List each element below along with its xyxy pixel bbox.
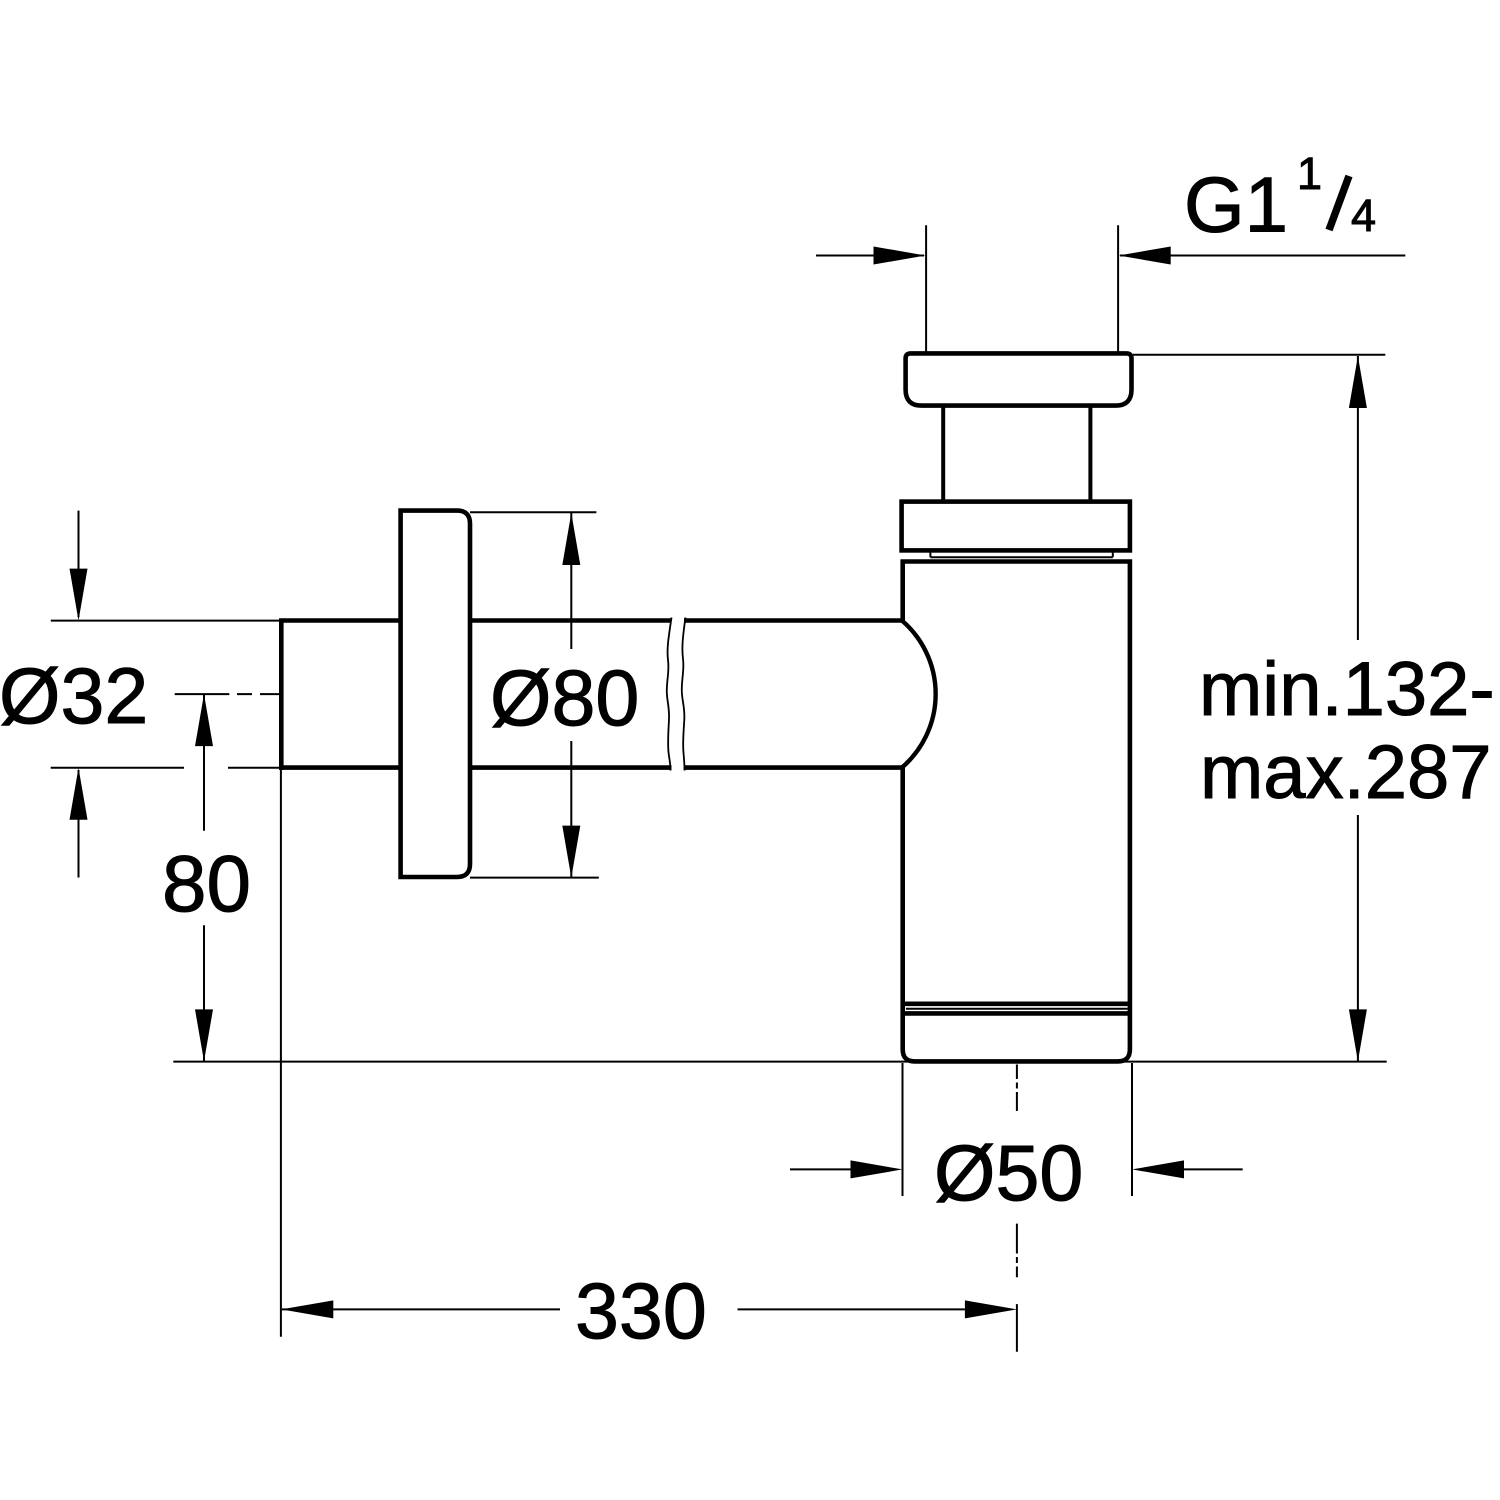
svg-text:Ø32: Ø32	[0, 651, 148, 740]
washer line	[930, 552, 1112, 558]
330 dimension line	[282, 1308, 965, 1310]
G1 1/4 extension lines	[926, 225, 1118, 354]
svg-text:min.132-: min.132-	[1199, 647, 1495, 732]
pipe centerline	[175, 693, 283, 695]
80 dimension line	[203, 694, 205, 1061]
top flange (G 1 1/4 connector)	[906, 353, 1132, 405]
svg-text:330: 330	[575, 1266, 707, 1355]
inlet pipe	[281, 618, 902, 770]
top nut	[902, 502, 1130, 551]
pipe break lines	[667, 618, 672, 771]
O32 extension lines	[51, 621, 281, 768]
pipe end bulge inside body	[902, 621, 936, 768]
G1 1/4 dimension arrows	[816, 255, 1405, 257]
bottle centerline	[1016, 1065, 1018, 1352]
330 extension line	[280, 770, 282, 1337]
svg-text:max.287: max.287	[1200, 730, 1492, 815]
O32 arrows	[78, 511, 80, 878]
O80 dimension line	[570, 513, 572, 878]
O50 arrows	[790, 1168, 1243, 1170]
min/max dimension line	[1357, 356, 1359, 1061]
wall flange	[401, 511, 470, 877]
baseline	[173, 1061, 1386, 1063]
O80 extension lines	[470, 512, 599, 877]
neck	[943, 406, 1090, 502]
svg-text:G1: G1	[1184, 161, 1288, 249]
O50 extension lines	[903, 1063, 1133, 1196]
svg-text:4: 4	[1351, 190, 1376, 241]
svg-text:Ø80: Ø80	[490, 653, 639, 742]
svg-text:80: 80	[162, 839, 251, 928]
svg-text:Ø50: Ø50	[934, 1128, 1083, 1217]
min/max top extension line	[1133, 354, 1385, 356]
svg-text:1: 1	[1297, 148, 1322, 199]
bottle body	[903, 559, 1130, 1061]
body bottom joint lines	[903, 1004, 1130, 1014]
